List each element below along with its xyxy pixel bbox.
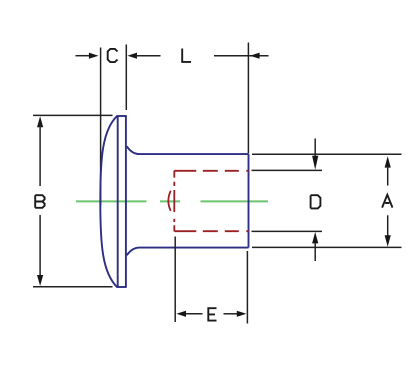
dim E right extension line (shank end) xyxy=(246,251,248,324)
fillet bottom (head to shank) xyxy=(127,248,140,256)
dim C left arrowhead xyxy=(89,53,99,59)
head outline (blue): top edge xyxy=(116,115,126,117)
dim B top arrowhead xyxy=(37,116,43,127)
label C xyxy=(108,49,118,62)
dim L dim line left part xyxy=(136,55,161,57)
dim D upper arrowhead (points down) xyxy=(312,156,318,170)
dim A lower arrowhead (points down) xyxy=(385,235,391,247)
shank right face edge xyxy=(248,154,250,248)
centerline (green) segment 1 xyxy=(76,200,147,202)
dim E dim line left xyxy=(185,313,203,315)
dim A upper arrowhead (points up) xyxy=(385,156,391,168)
hidden hole top edge (red dashed) xyxy=(174,170,248,172)
label A xyxy=(382,195,392,208)
head dome profile curve xyxy=(100,116,117,287)
dim B bottom extension line xyxy=(33,286,113,288)
dim D lower dim line xyxy=(314,243,316,261)
dim L left arrowhead xyxy=(127,53,137,59)
drill point arc (red) xyxy=(168,191,170,211)
shank top edge xyxy=(140,153,249,155)
dim D lower arrowhead (points up) xyxy=(312,232,318,244)
dim A lower dim line xyxy=(387,215,389,236)
label D xyxy=(311,195,321,208)
label L xyxy=(182,49,191,62)
shank bottom edge xyxy=(140,247,249,249)
centerline (green) segment 3 xyxy=(201,200,269,202)
head bottom edge xyxy=(116,286,126,288)
shank top edge extension line (A/D datum) xyxy=(252,153,402,155)
hidden hole flat bottom (red dashed vertical) xyxy=(173,171,175,232)
dim B bottom arrowhead xyxy=(37,275,43,286)
dim B dim line upper xyxy=(39,124,41,186)
dim L right extension line (shank end) xyxy=(247,43,249,154)
dim L dim line right part xyxy=(214,55,269,57)
dim B dim line lower xyxy=(39,215,41,278)
dim E dim line right xyxy=(224,313,238,315)
centerline (green) segment 2 xyxy=(160,200,180,202)
dim E left arrowhead xyxy=(176,311,186,317)
dim B top extension line xyxy=(33,114,113,116)
hidden hole bottom edge (red dashed) xyxy=(174,230,248,232)
dim L right arrowhead xyxy=(250,53,260,59)
dim E right arrowhead xyxy=(237,311,247,317)
dim C leader line left xyxy=(76,55,91,57)
label B xyxy=(35,195,44,208)
hole bottom edge extension line xyxy=(252,230,323,232)
dim D upper dim line xyxy=(314,139,316,159)
dim C/L shared extension line (head face) xyxy=(125,45,127,111)
head inner edge line xyxy=(117,116,119,287)
shank bottom edge extension line xyxy=(252,246,402,248)
hole top edge extension line xyxy=(252,169,323,171)
dim C extension line left (to dome apex) xyxy=(100,48,102,206)
dim A upper dim line xyxy=(387,166,389,186)
label E xyxy=(208,308,216,320)
fillet top (head to shank) xyxy=(127,146,140,154)
head face line xyxy=(125,116,127,287)
dim E left extension line (hole bottom) xyxy=(174,237,176,323)
